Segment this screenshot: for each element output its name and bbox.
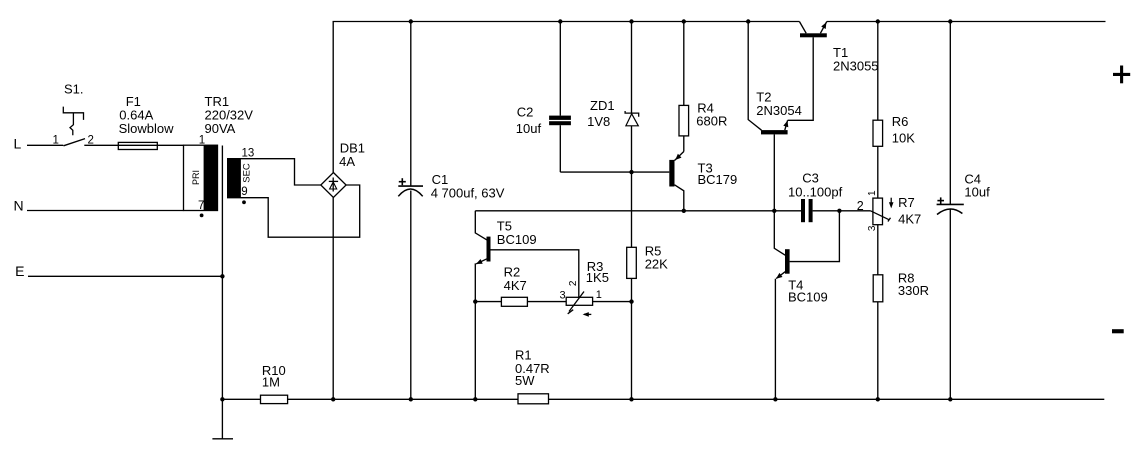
svg-text:4K7: 4K7 <box>898 211 921 226</box>
node E junction dot <box>220 274 224 278</box>
resistor R8 330R <box>873 225 929 400</box>
wire: top regulated output rail <box>827 21 1106 23</box>
T4 base lead <box>790 211 840 262</box>
trimmer R7 4K7 <box>857 190 921 231</box>
wire: E lead <box>28 275 222 277</box>
svg-text:22K: 22K <box>645 257 668 272</box>
svg-text:1K5: 1K5 <box>586 270 609 285</box>
C4 polarity + <box>937 200 944 202</box>
secondary phase dot <box>242 200 246 204</box>
svg-text:1: 1 <box>867 190 878 196</box>
capacitor C2 10uf <box>516 22 571 173</box>
svg-text:1: 1 <box>53 135 59 147</box>
primary phase dot <box>200 214 204 218</box>
svg-text:E: E <box>15 263 24 279</box>
wire: L lead <box>27 144 63 146</box>
switch S1 <box>53 81 94 146</box>
fuse F1 0.64A Slowblow <box>118 94 174 149</box>
transistor T5 BC109 <box>475 211 579 399</box>
svg-text:L: L <box>14 135 22 151</box>
T5 collector <box>475 211 487 240</box>
ground <box>212 399 233 439</box>
T2 base lead <box>773 134 775 210</box>
svg-text:330R: 330R <box>898 283 929 298</box>
switch actuator bracket <box>63 107 83 120</box>
svg-text:5W: 5W <box>515 373 535 388</box>
T2 collector <box>748 22 761 131</box>
wire: secondary 9 to bridge <box>227 185 360 237</box>
svg-text:9: 9 <box>241 186 247 198</box>
svg-text:4K7: 4K7 <box>504 278 527 293</box>
svg-text:1M: 1M <box>262 375 280 390</box>
R7 wiper <box>871 211 890 220</box>
R3 adjust arrow <box>584 313 591 315</box>
svg-text:S1.: S1. <box>64 81 84 96</box>
C1 polarity + <box>399 181 406 183</box>
svg-text:10uf: 10uf <box>964 185 990 200</box>
resistor R6 10K <box>873 22 915 199</box>
T4 base bar <box>785 249 790 274</box>
node R3 pin1 junction <box>629 299 633 303</box>
node T2 base junction <box>772 209 776 213</box>
resistor R1 0.47R 5W <box>515 348 550 404</box>
svg-text:3: 3 <box>560 290 566 302</box>
wire: N lead <box>27 210 184 212</box>
svg-text:680R: 680R <box>696 114 727 129</box>
T2 base bar <box>761 130 788 134</box>
wire: C2 to ZD1 node to T3 base <box>560 171 669 173</box>
svg-text:2: 2 <box>568 280 579 286</box>
T5 emitter <box>476 259 487 264</box>
wire: L to fuse <box>84 144 184 146</box>
svg-text:10..100pf: 10..100pf <box>788 184 843 199</box>
svg-text:4A: 4A <box>339 154 355 169</box>
svg-text:7: 7 <box>198 200 204 212</box>
transistor T2 2N3054 <box>748 22 802 211</box>
svg-text:13: 13 <box>242 148 255 160</box>
capacitor C1 4700uf 63V <box>398 22 504 400</box>
R7 adjust down-arrow <box>890 198 892 204</box>
T4 collector <box>774 211 785 255</box>
resistor R2 4K7 <box>475 265 631 307</box>
wire: T2 emitter to T1 base <box>788 37 814 120</box>
T5 base lead <box>491 250 579 299</box>
transistor T1 2N3055 <box>799 22 878 74</box>
primary winding <box>184 145 218 210</box>
T3 base bar <box>669 160 674 187</box>
wire: secondary 13 to bridge <box>227 159 321 185</box>
wire: bottom 0V rail <box>222 398 1104 400</box>
T5 base bar <box>487 237 491 262</box>
T3 emitter from R4 <box>675 152 684 161</box>
output - terminal <box>1112 329 1124 333</box>
T4 emitter <box>776 272 785 279</box>
T1 emitter <box>820 22 826 34</box>
R3 wiper <box>569 292 584 312</box>
svg-text:Slowblow: Slowblow <box>119 121 175 136</box>
node ZD1/C2/T3 base <box>629 170 633 174</box>
svg-text:R7: R7 <box>898 195 915 210</box>
svg-text:1V8: 1V8 <box>587 114 610 129</box>
zener diode ZD1 1V8 <box>587 22 639 248</box>
wire: mid drive bus left of C3 <box>475 210 801 212</box>
svg-text:2N3055: 2N3055 <box>833 58 879 73</box>
wire: bridge negative to bottom rail <box>332 198 334 400</box>
svg-text:2N3054: 2N3054 <box>756 103 802 118</box>
svg-text:1: 1 <box>199 135 205 147</box>
resistor R4 680R <box>679 22 727 152</box>
svg-text:N: N <box>14 197 24 213</box>
node bottom rail junction dots <box>220 397 224 401</box>
svg-text:BC179: BC179 <box>698 172 738 187</box>
svg-text:C3: C3 <box>802 170 819 185</box>
svg-text:BC109: BC109 <box>497 232 537 247</box>
svg-text:ZD1: ZD1 <box>590 98 615 113</box>
capacitor C3 10..100pf <box>788 170 843 222</box>
transistor T4 BC109 <box>774 211 839 399</box>
secondary winding <box>227 159 241 198</box>
node T4 base junction <box>837 209 841 213</box>
svg-text:90VA: 90VA <box>205 121 236 136</box>
transformer TR1 220/32V 90VA <box>184 94 255 399</box>
svg-text:SEC: SEC <box>241 163 252 183</box>
svg-text:3: 3 <box>867 225 878 231</box>
output + terminal <box>1113 66 1130 84</box>
svg-text:2: 2 <box>857 199 864 213</box>
svg-text:C2: C2 <box>517 105 534 120</box>
switch blade <box>64 139 86 146</box>
potentiometer R3 1K5 <box>560 259 609 317</box>
wire: top unregulated rail <box>333 22 799 173</box>
svg-text:4 700uf, 63V: 4 700uf, 63V <box>431 185 505 200</box>
svg-text:PRI: PRI <box>191 170 201 185</box>
svg-text:R6: R6 <box>892 114 909 129</box>
resistor R5 22K <box>627 244 668 400</box>
transistor T3 BC179 <box>669 152 737 211</box>
T3 collector <box>675 185 684 211</box>
capacitor C4 10uf <box>937 22 990 400</box>
node T3 collector junction <box>682 209 686 213</box>
node top rail junction dots <box>409 19 413 23</box>
T1 collector <box>799 22 806 34</box>
bridge rectifier DB1 4A <box>321 141 365 198</box>
wire: mid drive bus right of C3 <box>813 210 871 212</box>
svg-text:1: 1 <box>596 289 602 301</box>
svg-text:10K: 10K <box>892 131 915 146</box>
core <box>221 146 223 400</box>
svg-text:BC109: BC109 <box>788 289 828 304</box>
resistor R10 1M <box>261 363 288 404</box>
T1 base bar <box>800 33 827 37</box>
T2 emitter <box>785 120 788 130</box>
svg-text:10uf: 10uf <box>516 121 542 136</box>
node R2 left junction <box>473 299 477 303</box>
